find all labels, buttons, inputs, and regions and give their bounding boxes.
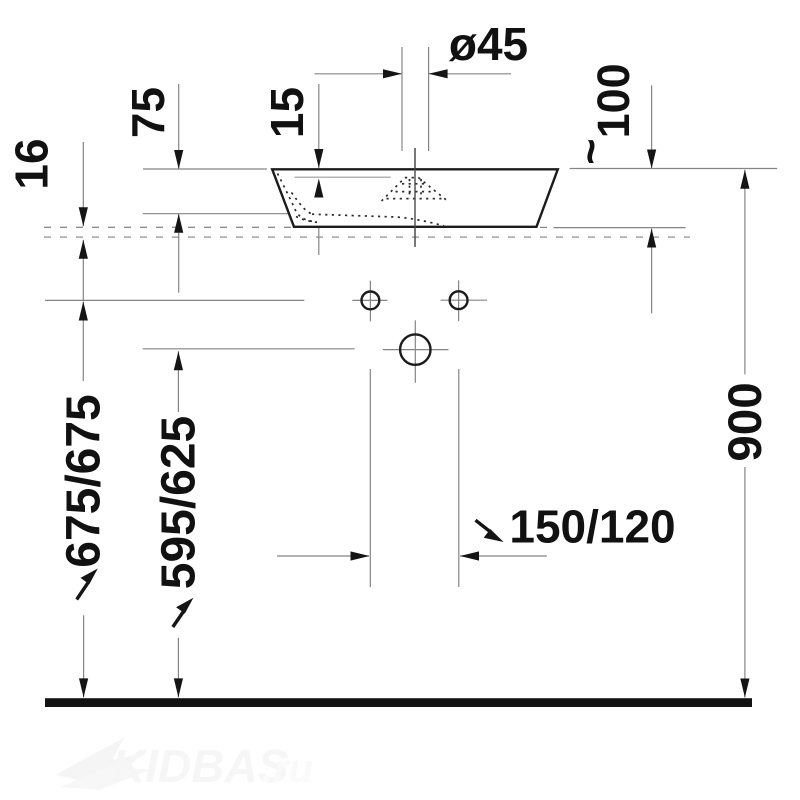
svg-text:900: 900 [719,382,772,461]
svg-text:675/675: 675/675 [57,394,110,568]
svg-text:ø45: ø45 [449,18,528,70]
svg-text:.ru: .ru [262,747,313,791]
svg-text:15: 15 [261,87,313,138]
svg-text:16: 16 [6,138,58,189]
svg-text:150/120: 150/120 [509,501,675,553]
svg-text:75: 75 [122,87,174,138]
svg-text:595/625: 595/625 [152,416,205,590]
